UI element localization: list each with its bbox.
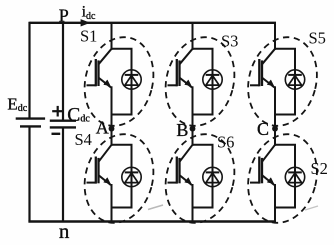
wire: top junction horizontal of S3 cell — [192, 48, 214, 50]
wire: emitter lead of S3 — [192, 86, 194, 114]
IGBT S3 — [168, 49, 193, 88]
wire: output of S1 cell — [111, 115, 113, 129]
antiparallel diode of S6 — [203, 167, 222, 186]
battery E_dc — [16, 119, 45, 127]
svg-text:A: A — [96, 118, 109, 138]
wire: positive DC bus (top rail) — [30, 22, 277, 24]
capacitor C_dc — [50, 121, 76, 128]
wire: bottom junction horizontal of S1 cell — [111, 114, 133, 116]
wire: emitter lead of S2 — [274, 184, 276, 208]
dashed ellipse around S5 cell — [238, 29, 326, 133]
wire: emitter lead of S4 — [111, 184, 113, 208]
wire: output of S2 cell — [274, 208, 276, 222]
wire: diode branch of S3 cell — [212, 49, 214, 115]
wire: diode branch of S5 cell — [294, 49, 296, 115]
current arrow i_dc on top bus — [81, 19, 91, 26]
wire: top junction horizontal of S2 cell — [274, 144, 296, 146]
IGBT S5 — [250, 49, 275, 88]
label + (capacitor polarity) — [52, 106, 63, 117]
wire: left rail upper (E_dc to top bus) — [28, 22, 30, 118]
wire: feed into S6 cell — [192, 129, 194, 146]
faint scan artifact streak right of leg 3 — [305, 206, 318, 210]
wire: feed into S4 cell — [111, 129, 113, 146]
wire: feed into S2 cell — [274, 129, 276, 146]
svg-text:P: P — [59, 6, 69, 26]
wire: emitter lead of S5 — [274, 86, 276, 114]
svg-text:S2: S2 — [311, 159, 328, 178]
svg-text:B: B — [176, 120, 188, 140]
wire: diode branch of S6 cell — [212, 145, 214, 208]
wire: capacitor branch lower (C_dc to n) — [62, 128, 64, 222]
dashed ellipse around S4 cell — [75, 126, 163, 230]
svg-text:S4: S4 — [75, 130, 92, 149]
wire: top junction horizontal of S5 cell — [274, 48, 296, 50]
wire: bottom junction horizontal of S6 cell — [192, 207, 214, 209]
dashed ellipse around S6 cell — [156, 126, 244, 230]
wire: emitter lead of S1 — [111, 86, 113, 114]
wire: bottom junction horizontal of S2 cell — [274, 207, 296, 209]
antiparallel diode of S1 — [122, 70, 141, 89]
wire: diode branch of S1 cell — [131, 49, 133, 115]
svg-text:S6: S6 — [217, 132, 234, 151]
svg-text:S3: S3 — [221, 31, 238, 50]
IGBT S4 — [87, 145, 112, 185]
svg-text:Cdc: Cdc — [67, 105, 90, 126]
node dot phase leg 2 — [190, 126, 196, 132]
wire: top junction horizontal of S6 cell — [192, 144, 214, 146]
IGBT S6 — [168, 145, 193, 185]
wire: output of S5 cell — [274, 115, 276, 129]
antiparallel diode of S5 — [285, 70, 304, 89]
wire: feed into S5 cell — [274, 23, 276, 50]
antiparallel diode of S2 — [285, 167, 304, 186]
wire: top junction horizontal of S4 cell — [111, 144, 133, 146]
wire: diode branch of S4 cell — [131, 145, 133, 208]
svg-text:C: C — [257, 119, 269, 139]
IGBT S2 — [250, 145, 275, 185]
wire: negative DC bus (bottom rail) — [28, 220, 276, 223]
wire: diode branch of S2 cell — [294, 145, 296, 208]
antiparallel diode of S4 — [122, 167, 141, 186]
node dot phase leg 1 — [109, 126, 115, 132]
wire: bottom junction horizontal of S3 cell — [192, 114, 214, 116]
wire: bottom junction horizontal of S5 cell — [274, 114, 296, 116]
wire: left rail lower (E_dc to bottom bus) — [28, 127, 30, 222]
node dot phase leg 3 — [272, 126, 278, 132]
wire: bottom junction horizontal of S4 cell — [111, 207, 133, 209]
wire: feed into S1 cell — [111, 23, 113, 50]
svg-text:S1: S1 — [80, 27, 97, 46]
wire: output of S3 cell — [192, 115, 194, 129]
dashed ellipse around S1 cell — [75, 29, 163, 133]
svg-text:S5: S5 — [309, 29, 326, 48]
wire: top junction horizontal of S1 cell — [111, 48, 133, 50]
faint scan artifact streak left of leg 2 — [148, 205, 163, 210]
svg-text:idc: idc — [82, 4, 96, 22]
wire: output of S6 cell — [192, 208, 194, 222]
IGBT S1 — [87, 49, 112, 88]
label - (capacitor polarity) — [52, 133, 61, 135]
dashed ellipse around S2 cell — [238, 126, 326, 230]
wire: capacitor branch upper (P to C_dc) — [62, 23, 64, 121]
svg-text:Edc: Edc — [7, 95, 27, 114]
svg-text:n: n — [59, 219, 70, 243]
antiparallel diode of S3 — [203, 70, 222, 89]
wire: emitter lead of S6 — [192, 184, 194, 208]
wire: feed into S3 cell — [192, 23, 194, 50]
wire: output of S4 cell — [111, 208, 113, 222]
dashed ellipse around S3 cell — [156, 29, 244, 133]
